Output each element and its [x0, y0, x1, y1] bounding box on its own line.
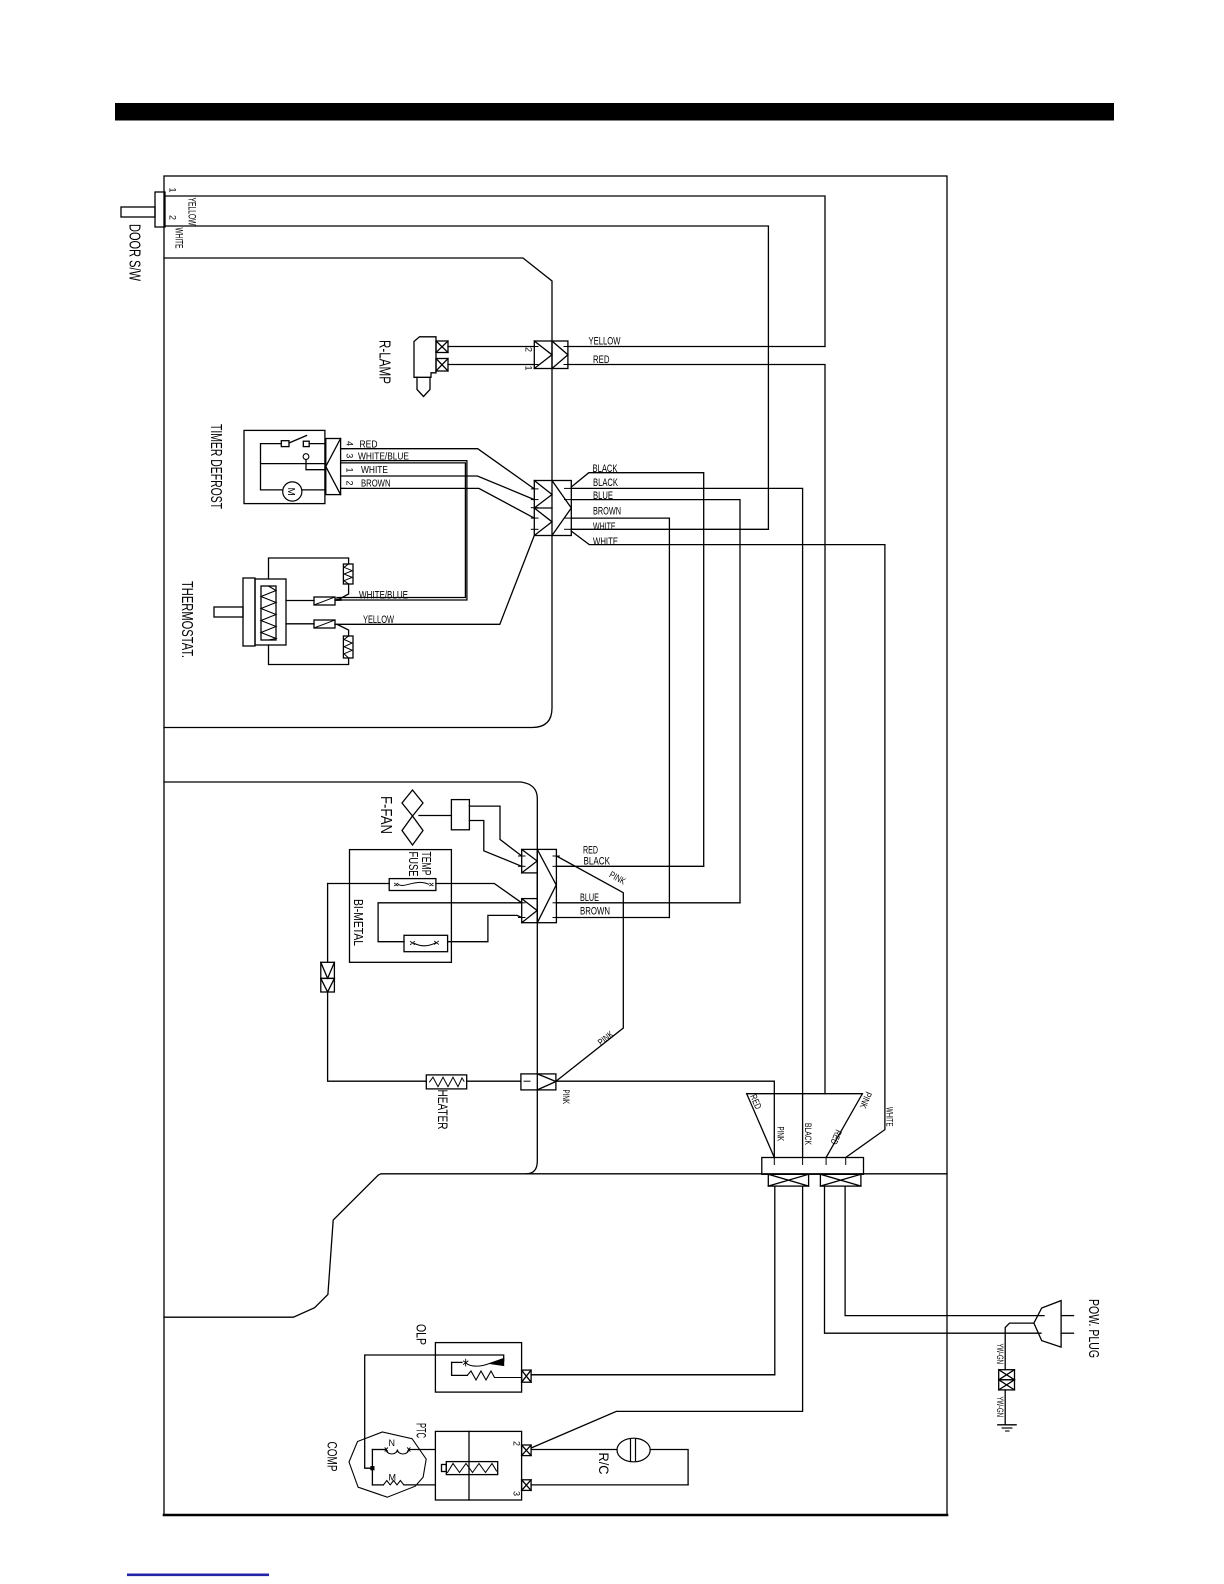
svg-text:TEMP: TEMP	[419, 852, 433, 876]
svg-text:1: 1	[345, 468, 355, 473]
OLP heater resistor	[467, 1371, 521, 1380]
svg-text:1: 1	[524, 366, 534, 371]
timer switch contact B	[303, 441, 309, 446]
svg-text:PINK: PINK	[560, 1090, 571, 1105]
winding main	[372, 1449, 386, 1451]
wire door pin2 white to connector white	[165, 226, 768, 529]
bimetal switch component	[404, 935, 448, 951]
thermostat top compensator loop	[269, 558, 349, 578]
wire fan motor 1	[469, 806, 521, 856]
wire yellow thermostat to connector	[335, 536, 534, 625]
lamp terminal 1	[436, 341, 448, 353]
wire PTC pin2 to RC	[531, 1449, 617, 1451]
svg-text:PINK: PINK	[857, 1090, 874, 1110]
connector CN-fan upper cell	[522, 849, 538, 873]
connector CN-lamp	[534, 341, 568, 369]
PTC terminal 2	[522, 1445, 532, 1456]
wire strip to plug upper	[845, 1186, 1044, 1316]
PTC terminal 3	[522, 1480, 532, 1491]
fan blade top	[402, 790, 423, 816]
wire timer pin4 red	[341, 449, 535, 489]
svg-text:PINK: PINK	[596, 1029, 617, 1048]
resistor top compensator	[343, 564, 353, 584]
svg-text:4: 4	[345, 441, 355, 446]
strip connector left	[768, 1174, 808, 1186]
svg-text:2: 2	[512, 1441, 522, 1446]
connector CN-fan right cell	[537, 849, 556, 922]
svg-text:N: N	[389, 1438, 396, 1448]
PTC element	[446, 1462, 497, 1475]
wire black fan	[556, 865, 703, 867]
wire thermostat pin2	[286, 623, 314, 625]
timer switch contact A	[281, 441, 289, 447]
svg-text:POW. PLUG: POW. PLUG	[1085, 1299, 1102, 1358]
wire red bus horizontal	[747, 1093, 863, 1095]
svg-text:F-FAN: F-FAN	[377, 796, 394, 834]
svg-text:WHITE: WHITE	[593, 521, 616, 533]
svg-text:YELLOW: YELLOW	[186, 198, 198, 226]
bimetal box BI-METAL	[350, 850, 452, 963]
wire lamp to connector pin1	[448, 364, 534, 366]
svg-text:BROWN: BROWN	[580, 905, 610, 917]
wire blue to fan connector	[571, 500, 740, 903]
svg-text:BLUE: BLUE	[593, 490, 613, 502]
svg-text:2: 2	[345, 481, 355, 486]
svg-text:M: M	[285, 488, 296, 496]
timer switch lever	[289, 436, 307, 444]
temp fuse component	[389, 879, 436, 891]
winding start	[372, 1484, 383, 1486]
svg-text:M: M	[389, 1473, 397, 1483]
wire lamp to connector pin2	[448, 346, 534, 348]
wire white1 to door	[571, 528, 768, 530]
wire PTC pin3	[531, 1484, 688, 1486]
footer blue line	[127, 1574, 269, 1577]
svg-text:YW-GN: YW-GN	[995, 1397, 1005, 1418]
wire blue fan	[556, 902, 740, 904]
fan blade bottom	[402, 816, 423, 845]
wire bimetal to fan connector	[448, 915, 522, 941]
svg-text:BI-METAL: BI-METAL	[351, 899, 366, 946]
ground symbol	[998, 1424, 1016, 1426]
door switch DOOR S/W	[155, 192, 165, 227]
wire temp fuse left	[328, 883, 390, 885]
bimetal inner box	[378, 903, 522, 942]
svg-text:2: 2	[168, 215, 178, 220]
wire plug neutral branch	[1005, 1323, 1034, 1333]
wire fuse branch down	[328, 884, 427, 1082]
wire brown to fan connector	[571, 518, 669, 917]
wire black2 to terminal strip	[571, 488, 802, 1157]
wire ground drop	[1004, 1333, 1006, 1370]
wire timer pin1 white	[341, 476, 535, 500]
svg-text:3: 3	[512, 1491, 522, 1496]
svg-text:THERMOSTAT.: THERMOSTAT.	[178, 581, 195, 658]
OLP terminal	[522, 1370, 532, 1382]
wire red diagonal left	[747, 1094, 775, 1158]
timer internal wires	[261, 444, 326, 490]
diagram border frame	[164, 176, 947, 1515]
wire white/blue pair stub	[335, 599, 341, 600]
wire fan compartment loop	[164, 782, 537, 1174]
timer cam circle	[303, 454, 309, 460]
wire heater to connector	[467, 1080, 521, 1082]
wire white2 to terminal strip	[571, 531, 885, 1157]
wire thermostat pin1	[286, 600, 314, 602]
wire strip to plug lower	[825, 1186, 1042, 1333]
svg-text:YELLOW: YELLOW	[589, 335, 621, 347]
wire temp fuse right to fan connector	[436, 884, 522, 903]
svg-text:BLACK: BLACK	[802, 1123, 813, 1145]
svg-text:RED: RED	[747, 1093, 763, 1111]
wire lamp yellow to door riser	[568, 346, 825, 348]
connector CN-main	[534, 481, 571, 536]
header bar	[115, 103, 1114, 121]
svg-text:HEATER: HEATER	[435, 1090, 451, 1130]
inline connector 2x	[321, 962, 335, 978]
svg-text:BROWN: BROWN	[361, 477, 391, 489]
timer motor M	[283, 482, 302, 501]
svg-text:R-LAMP: R-LAMP	[376, 340, 393, 384]
lamp terminal 2	[436, 359, 448, 372]
svg-text:WHITE/BLUE: WHITE/BLUE	[359, 590, 408, 602]
svg-text:R/C: R/C	[596, 1453, 612, 1475]
svg-text:COMP: COMP	[325, 1442, 341, 1472]
svg-text:PTC: PTC	[414, 1423, 430, 1438]
wire RC right loop	[650, 1450, 688, 1485]
thermostat terminal 2	[314, 620, 335, 628]
svg-text:WHITE: WHITE	[173, 228, 185, 249]
wire black1 to fan connector	[571, 473, 703, 867]
wire timer pin2 brown	[341, 488, 535, 518]
wire pink heater to strip	[556, 1081, 774, 1157]
svg-text:DOOR S/W: DOOR S/W	[126, 224, 143, 281]
wire timer pin3 white/blue pair outer	[337, 461, 467, 600]
svg-text:BLACK: BLACK	[584, 855, 611, 867]
wire lamp red down	[568, 365, 825, 1094]
wire strip to OLP	[531, 1186, 775, 1375]
thermostat bellows zigzag	[261, 586, 276, 640]
wire red diagonal right	[826, 1094, 862, 1158]
thermostat terminal 1	[314, 597, 335, 605]
wire fan hub to motor	[419, 815, 451, 817]
wire pink fan to heater node	[556, 856, 623, 1081]
svg-text:WHITE: WHITE	[361, 464, 388, 476]
terminal strip	[762, 1158, 864, 1175]
svg-text:OLP: OLP	[414, 1324, 430, 1345]
wire machine compartment boundary	[164, 1174, 947, 1317]
strip connector right	[820, 1174, 861, 1186]
wire OLP output	[531, 1374, 775, 1376]
svg-text:1: 1	[168, 188, 178, 193]
wire timer pin3 white/blue pair inner	[337, 463, 465, 598]
svg-text:FUSE: FUSE	[406, 852, 420, 877]
fan motor box	[451, 800, 469, 830]
connector CN-fan lower cell	[522, 899, 538, 923]
svg-text:WHITE: WHITE	[884, 1107, 895, 1127]
resistor bottom compensator	[343, 636, 353, 658]
wire brown fan	[556, 917, 669, 919]
svg-text:3: 3	[345, 453, 355, 458]
svg-text:YW-GN: YW-GN	[995, 1344, 1005, 1365]
svg-text:BLACK: BLACK	[593, 477, 618, 489]
OLP internal	[435, 1355, 503, 1375]
thermostat bottom loop	[269, 645, 349, 665]
wire fan motor 2	[469, 821, 521, 867]
svg-text:RED: RED	[828, 1128, 844, 1146]
svg-text:WHITE: WHITE	[593, 536, 618, 548]
wire strip to PTC pin2	[531, 1186, 803, 1448]
svg-text:2: 2	[524, 347, 534, 352]
compressor common node	[371, 1450, 373, 1485]
svg-text:BROWN: BROWN	[593, 506, 621, 518]
connector CN-heater	[521, 1074, 556, 1090]
wire freezer compartment loop	[164, 258, 552, 728]
timer connector	[326, 439, 341, 495]
inline ground connector	[999, 1370, 1015, 1380]
svg-text:TIMER DEFROST: TIMER DEFROST	[207, 424, 224, 509]
wire door pin1 yellow to lamp connector	[165, 196, 825, 347]
wire OLP left	[365, 1355, 436, 1468]
svg-text:PINK: PINK	[775, 1127, 786, 1142]
